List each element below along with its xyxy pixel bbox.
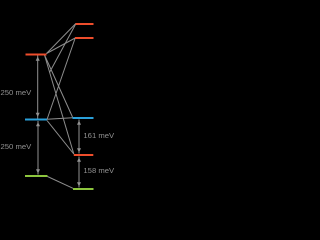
level left-green <box>25 175 48 177</box>
wire U3 long steep connector to orange-top <box>50 24 77 73</box>
svg-text:161 meV: 161 meV <box>83 131 115 140</box>
level right-red <box>74 154 94 156</box>
wire D3 red level to right-red level <box>45 55 74 154</box>
level right-green <box>73 188 94 190</box>
arrow A1 250 meV between red and blue levels <box>36 56 40 119</box>
arrow A4 158 meV between right-red and right-green levels <box>77 157 81 188</box>
svg-text:158 meV: 158 meV <box>83 166 115 175</box>
svg-text:250 meV: 250 meV <box>1 88 33 97</box>
level orange-bottom <box>75 37 94 39</box>
wire U4 blue level to orange-bottom level <box>47 38 75 120</box>
wire U2 red level to orange-bottom level <box>47 38 76 54</box>
level orange-top <box>76 23 94 25</box>
wire U1 red level to orange-top level <box>47 24 76 54</box>
level left-red <box>26 54 47 56</box>
arrow A2 250 meV between blue and green levels <box>36 121 40 175</box>
level right-blue <box>73 117 94 119</box>
wire D4 blue level to right-blue level <box>47 118 73 119</box>
arrow A3 161 meV between right-blue and right-red levels <box>77 120 81 154</box>
wire D1 red level to right-blue level <box>45 55 73 117</box>
wire D5 green level to right-green level <box>48 177 74 189</box>
wire D2 blue level to right-red level <box>47 121 74 155</box>
level left-blue <box>25 119 47 121</box>
svg-text:250 meV: 250 meV <box>1 142 33 151</box>
